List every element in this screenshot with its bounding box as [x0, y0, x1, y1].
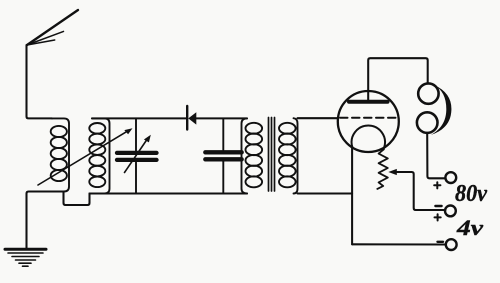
svg-text:4v: 4v: [456, 215, 484, 240]
wire phones to +80v terminal: [427, 133, 445, 178]
arrow C1 variable: [125, 135, 151, 173]
tube V1 envelope: [338, 91, 399, 152]
wire bottom rail to -4v terminal: [352, 243, 446, 245]
plus sign 4v: [435, 214, 441, 220]
wire secondary bottom to filament: [298, 192, 353, 194]
transformer T1 core: [269, 118, 275, 192]
wire antenna lead-in: [27, 45, 53, 118]
wire L1 bottom to ground: [27, 192, 51, 249]
wire bracket joining L1 and L2 bottoms: [64, 192, 90, 206]
diode D1 crystal detector: [187, 106, 196, 130]
phones P1 earpiece bottom: [417, 112, 438, 133]
minus sign 80v: [435, 205, 441, 207]
terminal -80v/+4v: [445, 206, 456, 217]
coil L2 secondary winding: [89, 118, 109, 193]
coil L1 primary winding: [50, 118, 69, 191]
transformer T1 secondary: [279, 118, 298, 193]
svg-text:80v: 80v: [455, 181, 487, 207]
plus sign 80v: [434, 182, 440, 188]
ground: [5, 249, 46, 266]
arrow R1 wiper: [388, 169, 445, 210]
phones P1 earpiece top: [418, 83, 438, 103]
wire top rail L2 to diode: [92, 117, 186, 119]
arrow coupling (variable coupling through L1 L2): [38, 128, 133, 185]
antenna A1: [27, 10, 78, 45]
capacitor C2 fixed bypass: [205, 118, 241, 193]
phones P1 band crescent: [431, 85, 451, 135]
rheostat R1 zigzag: [377, 148, 388, 189]
wire diode to transformer: [196, 117, 247, 119]
minus sign 4v: [438, 241, 444, 243]
tube V1 plate: [349, 100, 388, 104]
capacitor C1 variable tuning: [117, 118, 157, 193]
tube V1 grid (dashed): [340, 117, 397, 119]
wire filament left leg down to bottom rail: [351, 147, 353, 245]
wire bottom rail: [90, 192, 248, 194]
wire plate lead to phones: [368, 58, 428, 101]
transformer T1 primary: [242, 118, 263, 193]
terminal +80v: [445, 172, 456, 183]
tube V1 filament dome: [352, 126, 385, 147]
terminal -4v: [446, 239, 457, 250]
wire secondary top to tube grid: [298, 117, 338, 119]
